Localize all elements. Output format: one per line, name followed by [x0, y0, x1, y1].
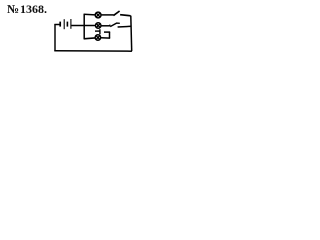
wire: middle branch fixed side	[118, 25, 132, 28]
wire: battery to middle lamp	[71, 25, 95, 27]
wire: top branch fixed side	[120, 15, 131, 16]
wire: bottom branch left	[84, 37, 95, 40]
wire: right return vertical	[130, 16, 133, 52]
lamp L1	[95, 12, 101, 18]
wire: battery left stub	[54, 24, 59, 26]
switch S3 blade lip	[104, 31, 110, 33]
battery B1 plate 4 (thin tall)	[70, 19, 72, 29]
wire: bottom return horizontal	[54, 50, 132, 53]
wire: top branch to switch hinge	[101, 14, 113, 16]
switch S1 blade (open)	[113, 11, 119, 16]
wire: middle branch to switch hinge	[101, 25, 110, 27]
wire: left return vertical	[54, 24, 56, 51]
switch S3 blade (open, vertical)	[109, 32, 111, 39]
lamp L2	[95, 23, 101, 29]
label "No 1368."	[7, 2, 47, 17]
switch S3b blade over lamp (vertical)	[99, 29, 101, 34]
wire: bottom branch to switch	[101, 37, 110, 39]
wire: top branch left	[84, 13, 96, 16]
switch S2 hinge tick	[109, 25, 111, 27]
switch S2 blade (open)	[110, 23, 120, 27]
switch S3b blade lip	[95, 30, 101, 32]
battery B1 plate 3 (thick short)	[66, 22, 68, 27]
lamp L3	[95, 35, 101, 41]
battery B1 plate 2 (thin tall)	[63, 19, 65, 29]
wire: left bus vertical	[83, 14, 85, 39]
battery B1 plate 1 (thick short)	[59, 22, 61, 27]
